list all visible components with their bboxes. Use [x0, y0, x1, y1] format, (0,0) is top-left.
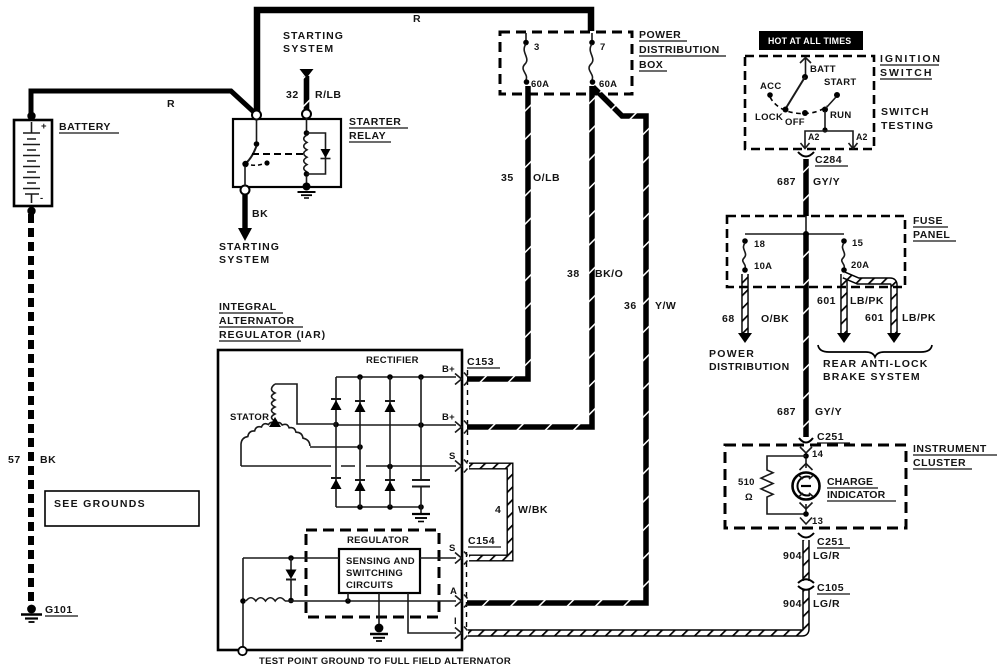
svg-text:510: 510 [738, 477, 755, 488]
rectifier rails [241, 374, 456, 510]
svg-text:OFF: OFF [785, 117, 805, 128]
svg-text:GY/Y: GY/Y [813, 176, 840, 188]
svg-text:STATOR: STATOR [230, 412, 269, 423]
wire 36 Y/W fuse 7 to alternator A [467, 87, 646, 603]
svg-text:BK/O: BK/O [595, 268, 623, 280]
relay clamp diode [321, 149, 331, 158]
test point circle [238, 647, 246, 655]
svg-text:LB/PK: LB/PK [902, 312, 936, 324]
svg-text:36: 36 [624, 300, 637, 312]
arrow to power distribution [738, 333, 752, 343]
svg-text:LG/R: LG/R [813, 550, 840, 562]
svg-text:7: 7 [600, 42, 606, 53]
svg-text:I: I [454, 616, 457, 627]
fuse panel box (dashed) [727, 216, 905, 287]
svg-text:60A: 60A [531, 79, 549, 90]
svg-text:CLUSTER: CLUSTER [913, 457, 966, 469]
svg-text:REGULATOR (IAR): REGULATOR (IAR) [219, 329, 326, 341]
svg-text:35: 35 [501, 172, 514, 184]
arrow to rear anti-lock right [887, 333, 901, 343]
resistor 510 ohm [761, 456, 806, 514]
svg-text:LB/PK: LB/PK [850, 295, 884, 307]
svg-text:DISTRIBUTION: DISTRIBUTION [639, 44, 720, 56]
svg-text:IGNITION: IGNITION [880, 53, 942, 65]
wire battery positive to starter relay, circuit R [31, 91, 257, 122]
svg-text:BK: BK [40, 454, 56, 466]
wire 38 BK/O fuse 7 to alternator B+ [467, 86, 592, 427]
svg-text:BK: BK [252, 208, 268, 220]
svg-text:3: 3 [534, 42, 540, 53]
connector C105 [798, 579, 814, 590]
wire 35 O/LB fuse 3 to alternator B+ [467, 86, 528, 379]
svg-text:C251: C251 [817, 431, 844, 443]
svg-text:S: S [449, 543, 456, 554]
arrow to rear anti-lock left [837, 333, 851, 343]
power distribution box (dashed) [500, 32, 632, 94]
svg-text:687: 687 [777, 406, 796, 418]
relay coil [304, 135, 307, 172]
IAR alternator box [218, 350, 462, 650]
SEE GROUNDS box [45, 491, 199, 526]
svg-text:O/BK: O/BK [761, 313, 789, 325]
instrument cluster box (dashed) [725, 445, 906, 528]
svg-text:LG/R: LG/R [813, 598, 840, 610]
svg-text:S: S [449, 451, 456, 462]
svg-text:R: R [167, 98, 175, 110]
svg-text:Y/W: Y/W [655, 300, 676, 312]
svg-text:B+: B+ [442, 364, 455, 375]
svg-text:BATT: BATT [810, 64, 836, 75]
wire 32 R/LB from starting system to starter relay [304, 76, 310, 110]
fuse 18 10A [742, 238, 748, 273]
svg-text:STARTER: STARTER [349, 116, 401, 128]
ground G101 [21, 605, 42, 622]
svg-text:15: 15 [852, 238, 864, 249]
svg-text:18: 18 [754, 239, 765, 250]
wire BK starter relay to starting system [242, 195, 247, 229]
svg-text:DISTRIBUTION: DISTRIBUTION [709, 361, 790, 373]
svg-text:601: 601 [817, 295, 836, 307]
svg-text:904: 904 [783, 598, 802, 610]
svg-text:SENSING AND: SENSING AND [346, 556, 415, 567]
svg-text:POWER: POWER [639, 29, 681, 41]
svg-text:G101: G101 [45, 604, 73, 616]
svg-text:FUSE: FUSE [913, 215, 943, 227]
fuse 7 60A [589, 33, 595, 85]
svg-text:C153: C153 [467, 356, 494, 368]
starting system arrow (feed into 32 R/LB) [300, 69, 314, 78]
HOT AT ALL TIMES banner [759, 31, 863, 50]
svg-text:601: 601 [865, 312, 884, 324]
wire 904 LG/R instrument cluster C251 to C105 [802, 540, 810, 581]
svg-text:38: 38 [567, 268, 580, 280]
wire 57 BK battery negative to ground G101 [28, 214, 34, 606]
svg-text:32: 32 [286, 89, 299, 101]
svg-text:4: 4 [495, 504, 501, 516]
wire 4 W/BK alternator S C153 to regulator S C154 [469, 466, 510, 558]
wire 687 GY/Y fuse panel to instrument cluster C251 [803, 234, 809, 437]
svg-text:R/LB: R/LB [315, 89, 342, 101]
svg-text:ACC: ACC [760, 81, 781, 92]
svg-text:BRAKE SYSTEM: BRAKE SYSTEM [823, 371, 921, 383]
svg-text:ALTERNATOR: ALTERNATOR [219, 315, 295, 327]
capacitor column [412, 377, 430, 522]
svg-text:14: 14 [812, 449, 824, 460]
C154 connector dashed line and wire flares [464, 552, 468, 640]
svg-text:TESTING: TESTING [881, 120, 934, 132]
svg-text:+: + [41, 121, 47, 132]
svg-text:A: A [450, 586, 457, 597]
fuse panel bus [745, 233, 844, 235]
svg-text:BATTERY: BATTERY [59, 121, 111, 133]
svg-text:SWITCHING: SWITCHING [346, 568, 403, 579]
svg-text:INDICATOR: INDICATOR [827, 489, 886, 501]
starting system arrow (BK output) [238, 228, 252, 241]
starter relay K1 [233, 110, 341, 199]
connector C251 top, pin 14 [799, 438, 813, 459]
svg-text:TEST POINT GROUND TO FULL FIE: TEST POINT GROUND TO FULL FIELD ALTERNAT… [259, 656, 511, 667]
ignition switch box (dashed) [745, 56, 874, 149]
wire 904 LG/R C105 to alternator I terminal [468, 589, 806, 633]
rectifier diode column 1 [331, 377, 342, 507]
svg-text:REAR ANTI-LOCK: REAR ANTI-LOCK [823, 358, 928, 370]
svg-text:C154: C154 [468, 535, 495, 547]
svg-text:C284: C284 [815, 154, 842, 166]
battery B1 [14, 112, 52, 215]
wire top feed R from starter relay to power distribution box [257, 10, 591, 115]
fuse 3 60A [523, 33, 529, 85]
svg-text:STARTING: STARTING [283, 30, 344, 42]
svg-text:A2: A2 [856, 132, 868, 142]
svg-text:-: - [40, 193, 43, 204]
brace rear anti-lock brake system [818, 345, 932, 357]
C153 connector dashed line and wire flares [464, 370, 468, 473]
charge indicator lamp [793, 458, 820, 524]
svg-text:REGULATOR: REGULATOR [347, 535, 409, 546]
svg-text:C105: C105 [817, 582, 844, 594]
svg-text:Ω: Ω [745, 492, 753, 503]
regulator wiring [240, 553, 461, 649]
wire 687 GY/Y ignition switch C284 to fuse panel [803, 159, 809, 216]
svg-text:START: START [824, 77, 856, 88]
svg-text:RELAY: RELAY [349, 130, 386, 142]
wire 601 LB/PK fuse 15 to rear anti-lock brake system left [840, 274, 848, 333]
regulator box (dashed) [306, 530, 439, 617]
svg-text:SWITCH: SWITCH [880, 67, 933, 79]
svg-text:PANEL: PANEL [913, 229, 950, 241]
svg-text:INTEGRAL: INTEGRAL [219, 301, 277, 313]
svg-text:20A: 20A [851, 260, 869, 271]
svg-text:68: 68 [722, 313, 735, 325]
svg-text:BOX: BOX [639, 59, 663, 71]
svg-text:GY/Y: GY/Y [815, 406, 842, 418]
ignition switch internals [767, 58, 857, 149]
svg-text:CIRCUITS: CIRCUITS [346, 580, 393, 591]
svg-text:13: 13 [812, 516, 823, 527]
svg-text:10A: 10A [754, 261, 772, 272]
svg-text:INSTRUMENT: INSTRUMENT [913, 443, 987, 455]
fuse 15 20A [841, 238, 847, 273]
svg-text:SEE GROUNDS: SEE GROUNDS [54, 498, 146, 510]
wire 601 LB/PK fuse 15 branch to rear anti-lock brake system right [844, 275, 894, 333]
svg-text:SYSTEM: SYSTEM [219, 254, 271, 266]
svg-text:SYSTEM: SYSTEM [283, 43, 335, 55]
svg-text:POWER: POWER [709, 348, 755, 360]
svg-text:W/BK: W/BK [518, 504, 548, 516]
svg-text:CHARGE: CHARGE [827, 476, 873, 488]
svg-text:60A: 60A [599, 79, 617, 90]
svg-text:STARTING: STARTING [219, 241, 280, 253]
C153 pin arrows [455, 374, 462, 472]
sensing and switching circuits box [339, 549, 420, 593]
rectifier diode column 2 [355, 377, 366, 507]
connector C284 [798, 152, 814, 157]
svg-text:57: 57 [8, 454, 21, 466]
svg-text:HOT AT ALL TIMES: HOT AT ALL TIMES [768, 36, 851, 46]
svg-text:A2: A2 [808, 132, 820, 142]
svg-text:904: 904 [783, 550, 802, 562]
svg-text:LOCK: LOCK [755, 112, 783, 123]
svg-text:RECTIFIER: RECTIFIER [366, 355, 419, 366]
svg-text:R: R [413, 13, 421, 25]
svg-text:O/LB: O/LB [533, 172, 560, 184]
svg-text:SWITCH: SWITCH [881, 106, 930, 118]
svg-text:B+: B+ [442, 412, 455, 423]
connector C251 bottom, pin 13 [798, 533, 814, 538]
rectifier diode column 3 [385, 377, 396, 507]
stator windings [241, 384, 336, 466]
relay ground [298, 191, 316, 193]
svg-text:C251: C251 [817, 536, 844, 548]
wire 68 O/BK fuse 18 to power distribution [741, 274, 749, 333]
svg-text:RUN: RUN [830, 110, 851, 121]
svg-text:687: 687 [777, 176, 796, 188]
